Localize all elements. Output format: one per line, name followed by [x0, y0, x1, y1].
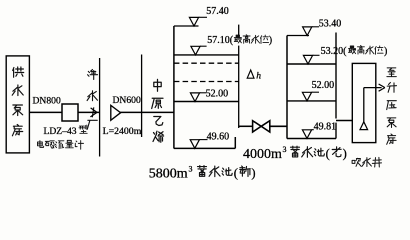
svg-text:3: 3 — [189, 165, 193, 174]
svg-text:52.00: 52.00 — [312, 80, 335, 91]
svg-text:DN800: DN800 — [33, 95, 61, 106]
svg-text:52.00: 52.00 — [206, 88, 229, 99]
svg-text:L=2400m: L=2400m — [103, 126, 142, 137]
svg-text:5800m: 5800m — [149, 167, 188, 182]
svg-text:): ) — [269, 35, 272, 46]
svg-text:57.40: 57.40 — [206, 6, 229, 17]
svg-text:53.20(: 53.20( — [321, 46, 348, 57]
svg-text:49.81: 49.81 — [314, 121, 337, 132]
svg-text:): ) — [384, 46, 387, 57]
svg-text:(: ( — [234, 166, 238, 180]
svg-text:57.10(: 57.10( — [207, 35, 234, 46]
svg-text:): ) — [343, 146, 347, 160]
svg-text:): ) — [251, 166, 255, 180]
svg-text:4000m: 4000m — [243, 147, 282, 162]
svg-text:49.60: 49.60 — [207, 131, 230, 142]
svg-text:h: h — [256, 71, 261, 81]
svg-text:53.40: 53.40 — [319, 19, 342, 30]
svg-text:3: 3 — [283, 145, 287, 154]
svg-text:(: ( — [326, 146, 330, 160]
svg-text:LDZ–43: LDZ–43 — [44, 126, 77, 137]
svg-text:DN600: DN600 — [113, 95, 141, 106]
